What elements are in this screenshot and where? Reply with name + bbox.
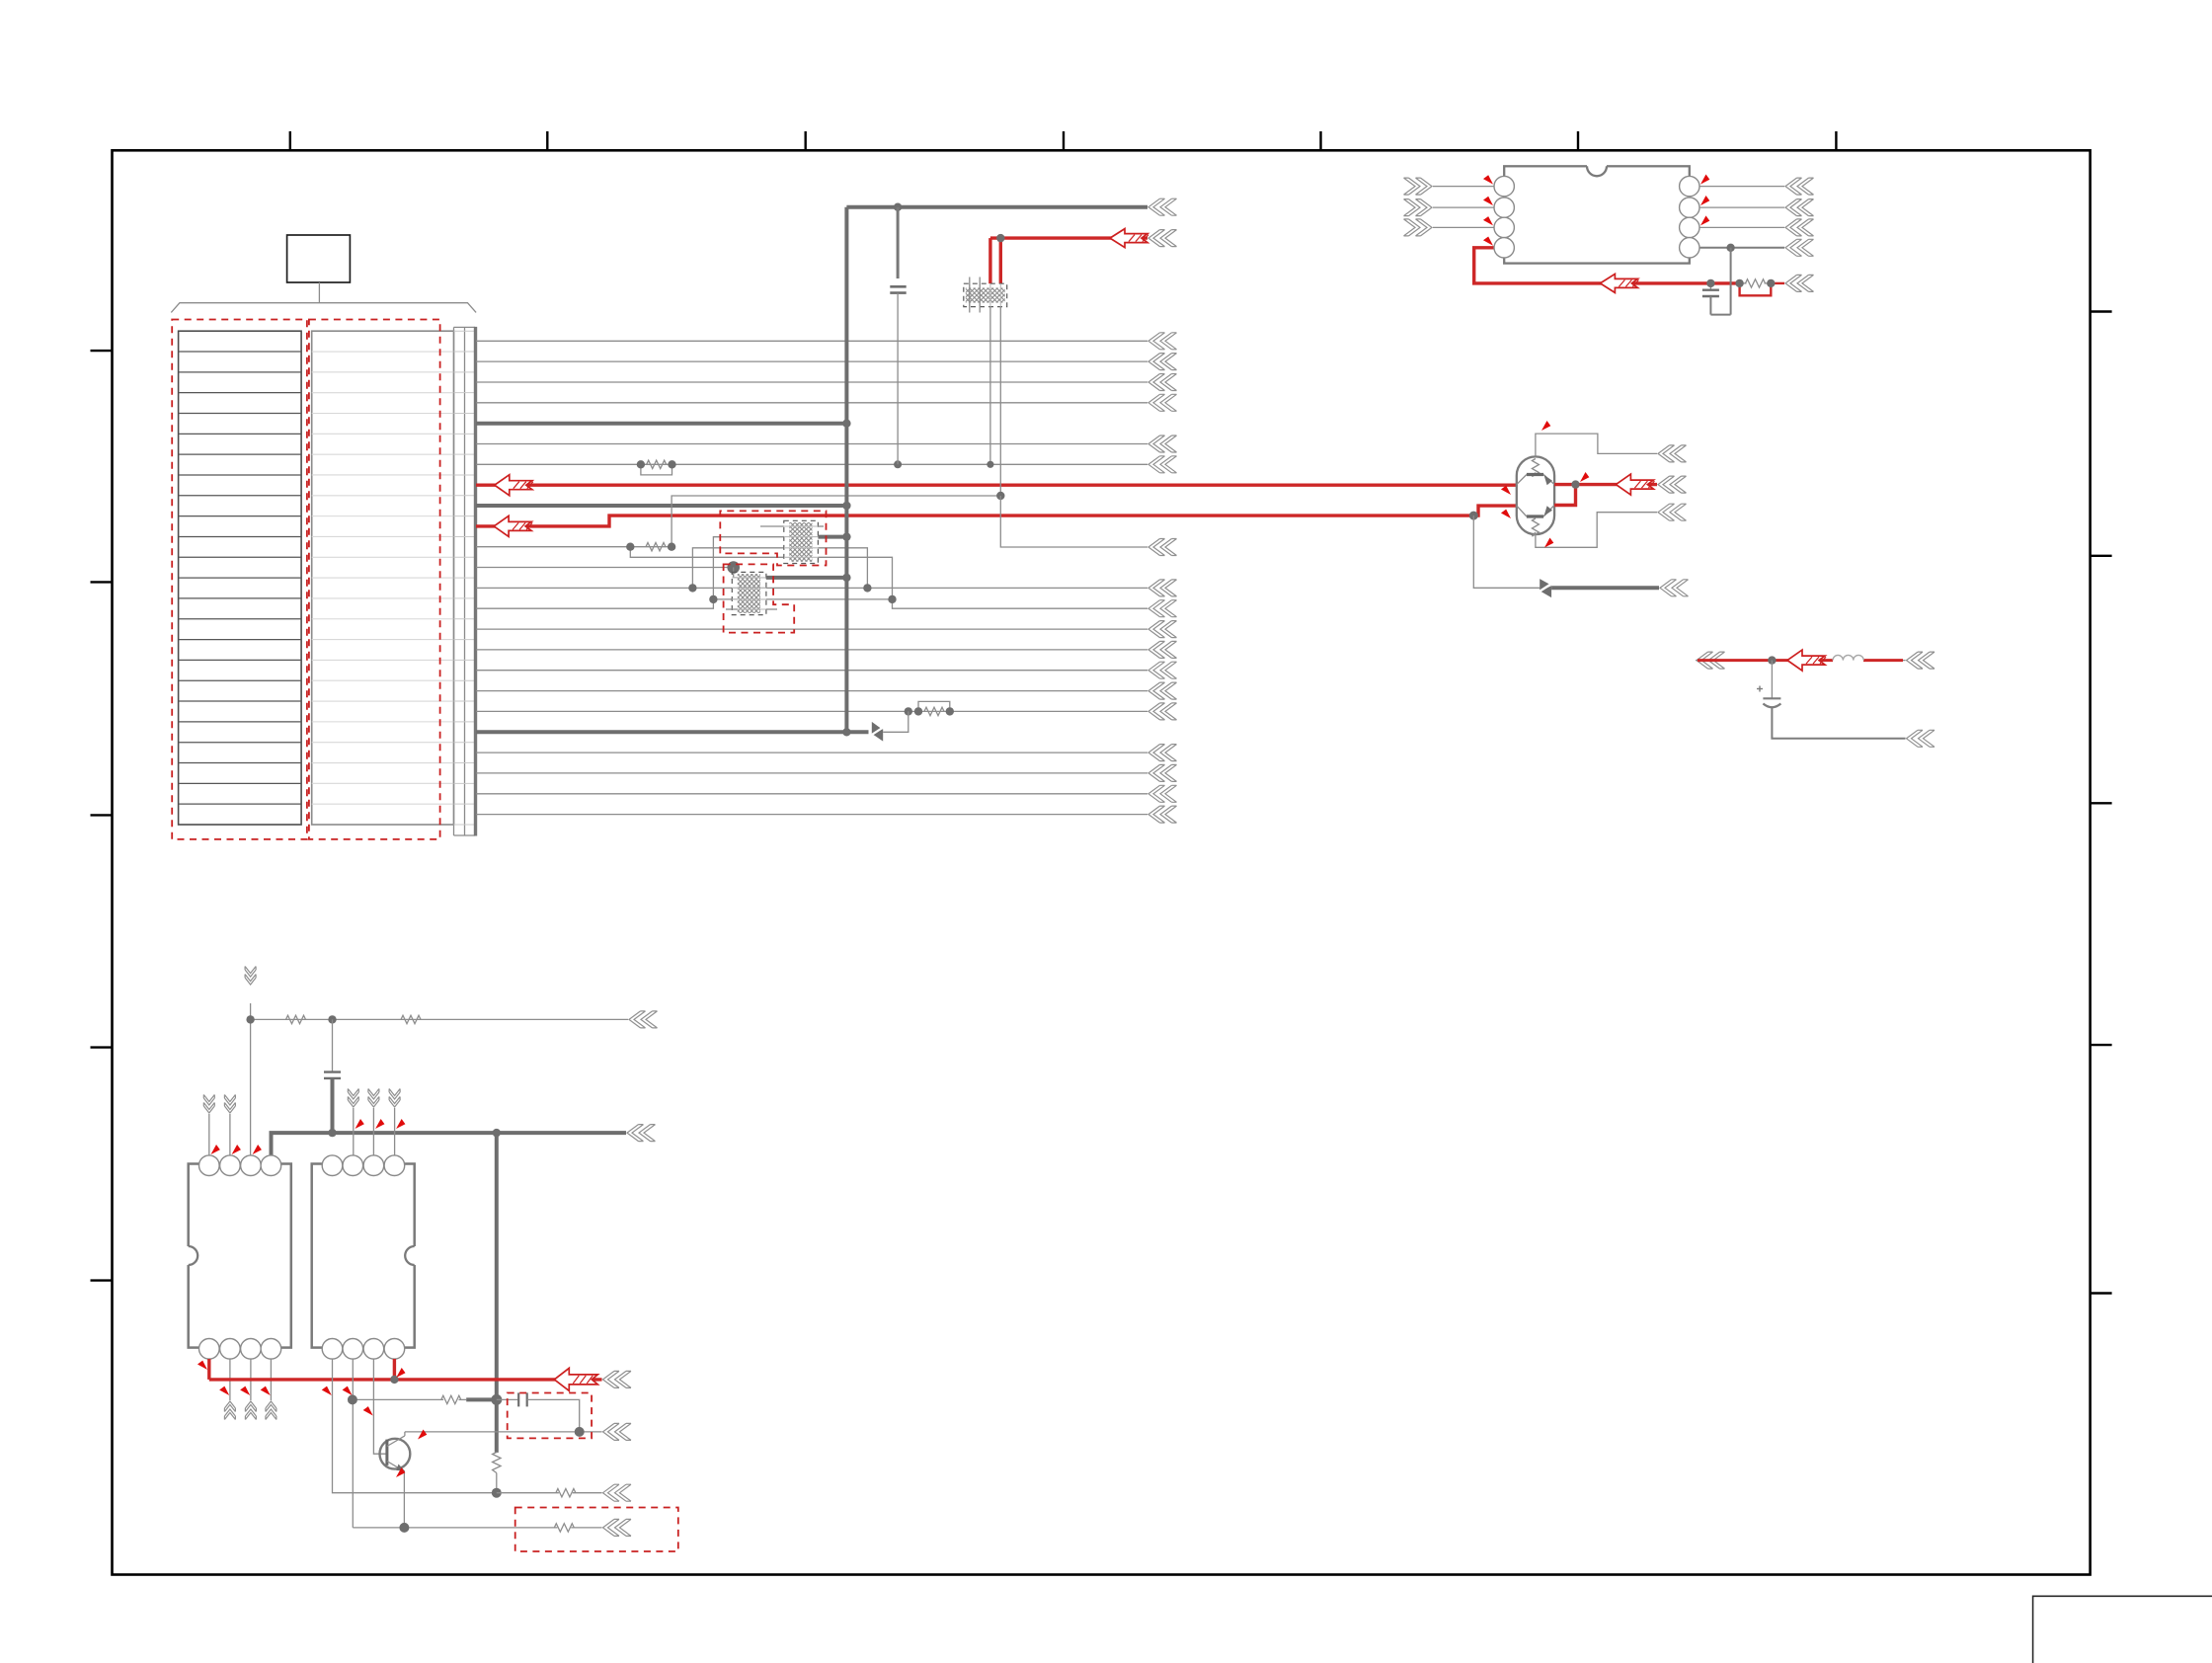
red bypass loop	[1740, 283, 1772, 295]
red wire2 jog to transistor	[1473, 506, 1517, 515]
IC U1 pin4 right wire	[1699, 239, 1814, 256]
connector bracket	[171, 303, 476, 313]
red wire Q1 right	[1554, 476, 1686, 493]
thick wire D2 to arrow	[1551, 580, 1688, 596]
wire row2 to page arrow	[476, 374, 1177, 391]
IC U3 body	[312, 1164, 415, 1348]
red dashed box bottom	[515, 1508, 678, 1552]
wire row6	[476, 456, 1177, 473]
wire diode to row18	[883, 711, 908, 732]
capacitor C4 series	[497, 1392, 580, 1432]
wire R-U1 to arrow	[1771, 275, 1813, 291]
junction dot bus bottom	[842, 728, 850, 736]
row10 branch down	[630, 547, 784, 558]
marker U3 pin4	[394, 1368, 406, 1380]
wire bigdot to bead2 pin1	[734, 568, 738, 578]
wire row22 to page arrow	[476, 785, 1177, 802]
Q1 bottom lead	[1536, 504, 1687, 547]
title block corner	[2033, 1596, 2212, 1663]
red dashed box bead FB2	[720, 511, 826, 565]
Q1 top lead	[1536, 434, 1687, 462]
resistor R-drop	[493, 1453, 501, 1493]
wire LC gray	[1696, 660, 1906, 662]
row12 right riser from bead1 pin3	[818, 548, 867, 589]
wire row20 to page arrow	[476, 745, 1177, 761]
red arrow row7 left	[495, 475, 533, 496]
node big dot	[727, 561, 740, 574]
wire row13 right	[818, 557, 1176, 616]
wire row5 to page arrow	[476, 436, 1177, 452]
resistor R-row10	[630, 543, 671, 551]
wire row21 to page arrow	[476, 764, 1177, 781]
thick stub base row	[466, 1397, 497, 1401]
junction dot red2	[1469, 512, 1478, 520]
red arrow LC	[1787, 650, 1826, 671]
ferrite bead FB2	[784, 520, 819, 563]
bead FB3 pin4 stubs	[726, 608, 777, 610]
wire pin1 row resistor	[497, 1484, 631, 1501]
wire row19 thick	[476, 730, 869, 734]
IC U1 pin4 red wire	[1474, 248, 1740, 283]
junction dot top wire	[894, 203, 902, 211]
markers IC2 top pins	[208, 1145, 262, 1156]
junction dots row10	[626, 543, 675, 551]
red overlay LC	[1698, 659, 1903, 662]
IC U1 pin circles	[1494, 176, 1699, 258]
marker Q1 left lower	[1501, 509, 1513, 520]
wire row10 to resistor	[476, 546, 630, 548]
red wire to bead FB1	[990, 236, 1147, 239]
markers IC3 top pins	[353, 1119, 406, 1131]
connector red dashed highlight box left	[172, 320, 307, 839]
right edge ticks	[2091, 312, 2112, 1294]
IC U3 notch	[405, 1246, 415, 1265]
junction dots res row	[246, 1015, 336, 1023]
feather LC right	[1907, 652, 1935, 669]
wire row17 to page arrow	[476, 682, 1177, 699]
junction dot Q1	[1571, 480, 1579, 488]
dual transistor Q1 body	[1517, 456, 1554, 534]
down arrow top	[245, 967, 256, 986]
junction dot LC	[1768, 656, 1776, 664]
bead FB2 pin2 thick	[713, 535, 846, 539]
markers U1 pins	[1483, 175, 1710, 249]
resistor R-U1	[1740, 279, 1772, 287]
junction dot U1 pin4	[1726, 244, 1734, 252]
junction dots row6	[637, 460, 902, 468]
thick vertical drop	[495, 1133, 499, 1453]
wire row15 to page arrow	[476, 641, 1177, 658]
junction dots R-U1	[1735, 279, 1775, 287]
red wire U3 pin4	[393, 1359, 396, 1380]
red arrow Q1 right	[1616, 474, 1654, 495]
top edge ticks	[290, 131, 1837, 150]
junction dots row13	[709, 595, 897, 603]
thick bus row bottom	[272, 1125, 656, 1155]
row10 branch up-over	[671, 496, 1000, 547]
capacitor C3	[1702, 283, 1719, 315]
junction dots bus	[842, 420, 850, 583]
junction dot red	[996, 234, 1004, 242]
Q1 bottom diagonals	[1517, 506, 1554, 517]
connector body right edge	[474, 327, 477, 836]
IC U2 notch	[189, 1246, 198, 1265]
Q1 bottom base bar	[1527, 515, 1543, 517]
diode D1 bowtie	[869, 722, 886, 742]
red power bus	[209, 1371, 631, 1387]
wire row16 to page arrow	[476, 662, 1177, 678]
connector signal table right	[312, 331, 454, 825]
Q1 bottom internal resistor	[1532, 518, 1539, 536]
thick vertical bus	[844, 207, 848, 733]
junction dots bottom bus	[328, 1129, 501, 1137]
marker Q1 top	[1540, 421, 1551, 433]
wire res row	[251, 1011, 658, 1028]
red wire U2 pin1	[207, 1359, 210, 1380]
connector pin column strip	[454, 327, 476, 835]
connector pin table left	[179, 331, 302, 825]
connector red dashed highlight box right	[309, 320, 440, 839]
resistor R-row6	[641, 460, 672, 475]
markers U2 bottom pins	[219, 1386, 273, 1397]
junction dots row18	[905, 707, 954, 715]
capacitor C-top	[890, 207, 906, 465]
marker Q1 right	[1578, 472, 1590, 484]
Q1 top internal resistor	[1532, 459, 1539, 477]
Q1 top base bar	[1527, 473, 1543, 476]
marker Q1 bottom	[1542, 537, 1554, 549]
feather LC left	[1697, 652, 1725, 669]
wire row1 to page arrow	[476, 354, 1177, 370]
wire row23 to page arrow	[476, 806, 1177, 823]
inductor L1	[1833, 655, 1863, 660]
diode D2 bowtie	[1538, 579, 1554, 597]
IC U1 body	[1504, 166, 1690, 263]
junction dots row12	[688, 584, 871, 592]
wire U3 pin2	[352, 1359, 354, 1528]
feather top red	[1148, 230, 1177, 247]
ferrite bead FB3	[732, 572, 766, 614]
IC U2 bottom stub arrows	[224, 1359, 276, 1420]
junction dot red bus	[390, 1376, 398, 1384]
transistor Q2	[380, 1432, 411, 1528]
left edge ticks	[91, 351, 113, 1281]
Q1 top arrow	[1544, 475, 1553, 485]
IC U1 notch	[1587, 166, 1607, 176]
red dashed box C4	[508, 1393, 592, 1439]
resistor R-b1	[286, 1015, 306, 1023]
ground hook U1	[1710, 248, 1730, 315]
bead FB1 down pins	[990, 307, 1000, 496]
thick top wire	[846, 198, 1176, 215]
IC pin circles bottom	[199, 1155, 405, 1359]
junction dot emitter	[399, 1523, 409, 1533]
resistor R-b2	[401, 1015, 421, 1023]
IC U1 left pin wires	[1404, 178, 1495, 236]
wire row13 left	[476, 537, 784, 609]
bead pin to arrow row	[1000, 496, 1176, 556]
wire vcc vertical	[250, 1003, 252, 1155]
row12 left riser to bead1 pin3	[692, 548, 783, 589]
wire row3 to page arrow	[476, 394, 1177, 411]
junction dots bead pins	[987, 461, 1004, 501]
wire row0 to page arrow	[476, 333, 1177, 350]
IC U1 right pin wires	[1699, 178, 1814, 236]
connector J1 shell box	[287, 235, 351, 282]
IC2 pins1-2 stub arrows	[203, 1095, 235, 1156]
wire base row	[353, 1395, 466, 1403]
wire U3 pin3	[373, 1359, 387, 1454]
red signal wire row9	[476, 515, 1473, 526]
red arrow bus	[554, 1368, 597, 1390]
wire collector row	[405, 1423, 631, 1440]
border frame	[113, 150, 2091, 1574]
wire shell box to bracket	[318, 282, 320, 303]
marker U2 pin1	[197, 1360, 209, 1372]
bead2 pin3 crossbar	[713, 598, 892, 600]
wire row12 through bead	[476, 580, 1177, 596]
wire emitter row	[353, 1519, 631, 1536]
IC U2 body	[189, 1164, 291, 1348]
capacitor C2 polarized	[1757, 661, 1780, 708]
wire to diode D2	[1473, 515, 1540, 588]
red arrow row9 left	[494, 515, 532, 536]
wire row4 thick to bus	[476, 422, 846, 426]
bead FB2 pin1 stub	[760, 525, 824, 527]
wire U3 pin1	[333, 1359, 497, 1493]
red dashed box bead FB3	[724, 564, 795, 632]
wire row14 to page arrow	[476, 621, 1177, 638]
junction dot drop	[492, 1488, 502, 1498]
red bead risers	[990, 238, 1000, 283]
junction dot collector	[575, 1427, 585, 1437]
capacitor C-b1	[324, 1019, 341, 1133]
bead FB3 pin1 thick	[766, 576, 847, 580]
wire row8 thick to bus	[476, 504, 846, 508]
markers U3 lower	[322, 1386, 375, 1418]
Q1 bottom arrow	[1544, 506, 1553, 515]
junction dot C3	[1706, 279, 1714, 287]
red jog Q1 lower base	[1554, 485, 1575, 506]
wire row11 to bead2	[476, 567, 734, 569]
red signal wire row7	[476, 484, 1517, 487]
wire row18	[476, 703, 1177, 720]
red arrow top	[1110, 229, 1148, 248]
marker Q1 left upper	[1501, 485, 1513, 497]
IC3 pins2-4 stub arrows	[348, 1089, 400, 1156]
junction dot base row	[348, 1394, 502, 1405]
Q1 top diagonals	[1517, 475, 1554, 485]
resistor R-row18	[918, 701, 950, 715]
ferrite bead FB1	[964, 277, 1007, 313]
wire C2 to arrow	[1772, 707, 1935, 747]
markers Q2	[394, 1429, 428, 1479]
red arrow U1	[1600, 274, 1638, 292]
